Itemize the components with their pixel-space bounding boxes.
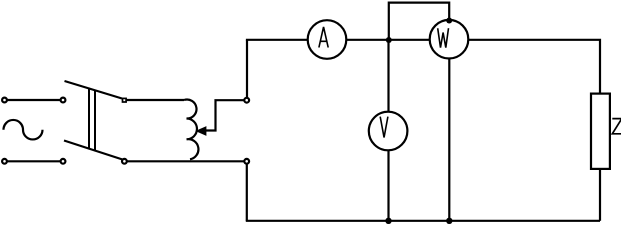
terminal source bottom-right — [61, 159, 66, 164]
terminal source bottom-left — [2, 159, 7, 164]
switch terminal top-right (square) — [123, 98, 127, 102]
switch linkage bar right — [94, 90, 96, 152]
terminal source top-left — [2, 98, 7, 103]
node wattmeter top dot — [446, 18, 452, 24]
variac output terminal bottom — [244, 159, 249, 164]
ammeter A — [308, 20, 347, 59]
ammeter letter A — [319, 27, 328, 48]
wire load bottom — [599, 169, 601, 221]
terminal source top-right — [61, 98, 66, 103]
wire wattmeter voltage-coil bracket — [389, 3, 449, 40]
switch terminal bottom-right — [122, 159, 127, 164]
wire variac terminal down to bottom rail — [246, 164, 248, 221]
wire top rail to ammeter — [246, 39, 308, 41]
wire wattmeter to right corner — [469, 40, 601, 94]
variac coil T1 — [184, 100, 198, 160]
voltmeter letter V — [380, 117, 388, 138]
wire bottom rail — [246, 220, 600, 222]
wire source bottom — [7, 160, 61, 162]
ac source sine symbol — [4, 120, 43, 140]
wire source top — [7, 99, 61, 101]
variac wiper wire — [205, 100, 244, 130]
switch linkage bar left — [88, 88, 90, 150]
variac output terminal top — [244, 98, 249, 103]
wire variac terminal up to top rail — [246, 40, 248, 97]
load letter Z — [612, 119, 621, 134]
wire ammeter to wattmeter — [347, 39, 430, 41]
wire wattmeter bottom branch — [448, 58, 450, 221]
wire switch to variac-terminal bottom — [127, 160, 244, 162]
node junction bottom wattmeter — [446, 218, 452, 224]
wattmeter W — [430, 20, 469, 59]
wire voltmeter branch upper — [387, 41, 389, 112]
variac wiper arrow — [197, 127, 206, 135]
wattmeter letter W — [438, 28, 449, 47]
wire switch to variac top — [127, 99, 184, 101]
switch blade bottom — [64, 141, 123, 160]
voltmeter V — [369, 112, 408, 151]
load Z rectangle — [591, 94, 610, 169]
wire voltmeter branch lower — [387, 150, 389, 221]
node junction top — [386, 37, 392, 43]
node junction bottom voltmeter — [385, 218, 391, 224]
switch blade top — [65, 81, 123, 99]
